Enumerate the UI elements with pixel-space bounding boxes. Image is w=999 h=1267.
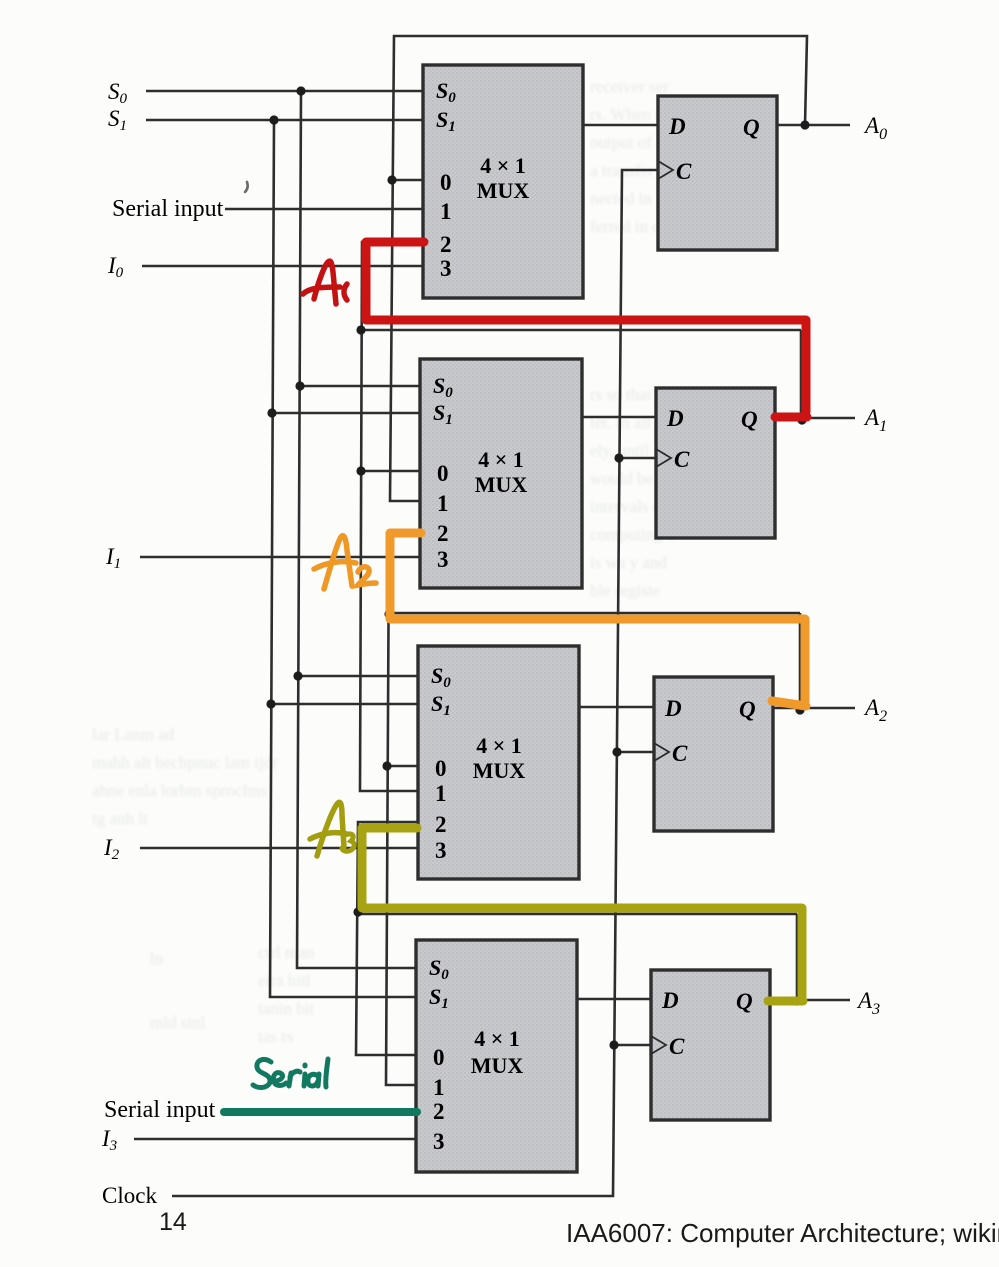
svg-text:is wa y and: is wa y and — [590, 553, 667, 572]
wire I2 input line — [140, 847, 418, 850]
node clock/FF2 junction — [614, 453, 623, 462]
svg-text:Serial input: Serial input — [112, 196, 224, 222]
label handwritten orange A2 — [314, 536, 376, 589]
svg-text:MUX: MUX — [471, 1053, 524, 1078]
wire I3 input line — [134, 1138, 416, 1141]
svg-text:IAA6007: Computer Architecture: IAA6007: Computer Architecture; wikimedi… — [566, 1218, 999, 1248]
wire FF2 Q output A1 — [775, 417, 855, 420]
wire serial input (top) — [225, 208, 423, 211]
svg-text:D: D — [666, 406, 684, 431]
wire MUX1 output to FF1 D — [583, 124, 658, 127]
wire FF3 Q output A2 — [773, 707, 855, 710]
wire FF1 Q output A0 — [777, 124, 850, 127]
node A2 corner junction — [384, 609, 393, 618]
wire clock stub FF3 C — [617, 751, 654, 754]
svg-text:I0: I0 — [107, 253, 124, 281]
svg-text:MUX: MUX — [473, 758, 526, 783]
svg-text:ctrl man: ctrl man — [258, 943, 315, 962]
wire MUX4 output to FF4 D — [577, 998, 651, 1001]
flip-flop FF2 (A1) — [656, 388, 775, 538]
svg-text:D: D — [661, 988, 679, 1013]
wire S0 stub MUX3 — [298, 675, 418, 678]
wire handwritten red A1 route — [366, 242, 807, 417]
wire handwritten olive A3 route — [362, 828, 803, 1001]
svg-text:intervals o: intervals o — [590, 497, 661, 516]
svg-text:I3: I3 — [101, 1126, 117, 1154]
wire A1 feedback net — [360, 242, 423, 791]
wire MUX3 output to FF3 D — [579, 706, 654, 709]
svg-text:A1: A1 — [863, 405, 887, 435]
node A1/MUX2 p0 junction — [356, 466, 365, 475]
wire S0 input line — [146, 90, 423, 93]
node A3 corner junction — [353, 907, 362, 916]
mux U3 (4x1 MUX third) — [418, 646, 579, 879]
node S1/MUX2 junction — [267, 408, 276, 417]
svg-text:I2: I2 — [103, 835, 120, 863]
svg-text:ln: ln — [150, 949, 164, 968]
wire clock stub FF4 C — [614, 1044, 651, 1047]
flip-flop FF1 (A0) — [658, 96, 777, 250]
svg-text:S0: S0 — [108, 79, 128, 107]
svg-text:A0: A0 — [863, 113, 887, 143]
svg-text:D: D — [664, 696, 682, 721]
mux U2 (4x1 MUX second) — [420, 359, 582, 588]
wire A1 stub MUX2 p0 — [361, 470, 420, 473]
svg-text:2: 2 — [433, 1099, 445, 1124]
mux U1 (4x1 MUX top) — [423, 65, 583, 298]
node A3 Q junction — [792, 996, 801, 1005]
node S0/MUX1 junction — [296, 86, 305, 95]
wire serial input (bottom) — [223, 1111, 416, 1114]
wire A1 feedback horizontal — [361, 330, 801, 419]
svg-text:1: 1 — [440, 199, 452, 224]
flip-flop FF4 (A3) — [651, 970, 770, 1120]
label handwritten teal Serial — [253, 1059, 328, 1087]
label handwritten red A1 — [303, 261, 347, 304]
svg-text:2: 2 — [437, 521, 449, 546]
flip-flop FF3 (A2) — [654, 677, 773, 831]
svg-text:S1: S1 — [108, 106, 127, 134]
svg-text:4 × 1: 4 × 1 — [480, 153, 526, 178]
svg-text:1: 1 — [433, 1075, 445, 1100]
svg-text:3: 3 — [437, 547, 449, 572]
svg-text:D: D — [668, 114, 686, 139]
node A1 Q junction — [797, 415, 806, 424]
svg-text:ferred in di: ferred in di — [590, 217, 666, 236]
svg-text:A2: A2 — [863, 695, 887, 725]
node S0/MUX3 junction — [293, 671, 302, 680]
svg-text:ahne enla lorbm sproclms: ahne enla lorbm sproclms — [92, 781, 267, 800]
wire A2 stub MUX3 p0 — [387, 765, 418, 768]
svg-text:tas rs: tas rs — [258, 1027, 293, 1046]
svg-text:C: C — [676, 159, 692, 184]
wire I1 input line — [140, 556, 420, 559]
svg-text:MUX: MUX — [475, 472, 528, 497]
svg-text:14: 14 — [159, 1208, 187, 1236]
bleed-through faint text background — [92, 77, 676, 1157]
svg-text:A3: A3 — [856, 988, 880, 1018]
wire handwritten teal serial line — [224, 1108, 417, 1116]
node A1 corner junction — [356, 325, 365, 334]
svg-text:Q: Q — [736, 989, 753, 1014]
svg-text:eira bitl: eira bitl — [258, 971, 311, 990]
svg-text:3: 3 — [440, 256, 452, 281]
svg-text:C: C — [672, 741, 688, 766]
wire FF4 Q output A3 — [770, 999, 850, 1002]
svg-text:4 × 1: 4 × 1 — [476, 733, 522, 758]
svg-text:mld sml: mld sml — [150, 1013, 206, 1032]
svg-text:Q: Q — [741, 407, 758, 432]
svg-text:ble registe: ble registe — [590, 581, 660, 600]
mux U4 (4x1 MUX bottom) — [416, 940, 577, 1172]
svg-text:0: 0 — [435, 756, 447, 781]
label handwritten olive A3 — [310, 802, 354, 856]
stray pen tick mark — [245, 182, 248, 192]
node A0 Q junction — [800, 120, 809, 129]
svg-text:1: 1 — [435, 781, 447, 806]
node clock/FF4 junction — [609, 1040, 618, 1049]
svg-text:receiver ser: receiver ser — [590, 77, 669, 96]
wire A3 feedback net — [356, 822, 418, 1055]
svg-text:Clock: Clock — [102, 1183, 157, 1208]
wire clock stub FF2 C — [619, 457, 656, 460]
svg-text:1: 1 — [437, 491, 449, 516]
wire S1 stub MUX3 — [271, 703, 418, 706]
node A2 Q junction — [795, 705, 804, 714]
node S1/MUX1 junction — [269, 115, 278, 124]
svg-text:tg anh lt: tg anh lt — [92, 809, 148, 828]
svg-text:0: 0 — [440, 170, 452, 195]
wire A2 feedback net — [386, 531, 420, 1085]
svg-text:4 × 1: 4 × 1 — [474, 1026, 520, 1051]
wire MUX2 output to FF2 D — [582, 416, 656, 419]
wire clock line — [172, 170, 658, 1196]
svg-text:Q: Q — [743, 115, 760, 140]
node A0/MUX1 p0 junction — [387, 175, 396, 184]
svg-text:0: 0 — [433, 1045, 445, 1070]
svg-text:MUX: MUX — [477, 178, 530, 203]
wire A3 feedback horizontal — [358, 914, 797, 1001]
wire S1 input line — [146, 119, 423, 122]
wire S0 stub MUX2 — [300, 385, 420, 388]
svg-text:3: 3 — [435, 838, 447, 863]
svg-text:I1: I1 — [105, 544, 121, 572]
node A2/MUX3 p0 junction — [382, 761, 391, 770]
wire I0 input line — [142, 265, 423, 268]
svg-text:4 × 1: 4 × 1 — [478, 447, 524, 472]
wire A0 feedback net — [390, 36, 807, 501]
svg-text:Serial input: Serial input — [104, 1097, 216, 1123]
wire S1 vertical bus — [270, 120, 416, 997]
wire A2 feedback horizontal — [389, 613, 800, 709]
svg-text:mahh alt bechpnuc lam tjdr: mahh alt bechpnuc lam tjdr — [92, 753, 278, 772]
wire A0 stub MUX1 p0 — [392, 179, 423, 182]
wire S1 stub MUX2 — [272, 412, 420, 415]
node S1/MUX3 junction — [266, 699, 275, 708]
wire S0 vertical bus — [297, 91, 416, 968]
svg-text:lar Lanm ad: lar Lanm ad — [92, 725, 175, 744]
node clock/FF3 junction — [612, 747, 621, 756]
wire handwritten orange A2 route — [390, 533, 806, 706]
svg-text:C: C — [669, 1034, 685, 1059]
svg-text:0: 0 — [437, 461, 449, 486]
svg-text:tanin bit: tanin bit — [258, 999, 314, 1018]
svg-text:2: 2 — [440, 232, 452, 257]
node S0/MUX2 junction — [295, 381, 304, 390]
svg-text:3: 3 — [433, 1129, 445, 1154]
svg-text:2: 2 — [435, 812, 447, 837]
svg-text:C: C — [674, 447, 690, 472]
svg-text:Q: Q — [739, 697, 756, 722]
